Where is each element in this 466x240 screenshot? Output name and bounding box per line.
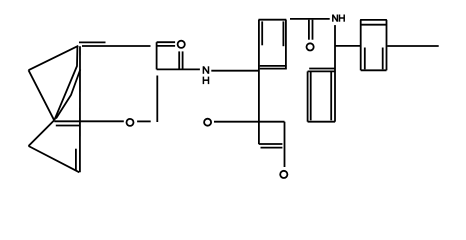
ring1 bottom double upper	[260, 65, 287, 67]
ring2 bottom edge	[361, 69, 387, 71]
wire vertical below carbonyl	[156, 76, 158, 123]
node N2 amide NH label	[333, 15, 344, 22]
node O carbonyl 2	[307, 43, 314, 50]
wire bond ring1 to NH2	[290, 18, 330, 20]
ring3 inner right vertical	[330, 71, 332, 120]
ring1 left vertical long	[258, 20, 260, 145]
wire double bond C2 lower	[157, 45, 176, 47]
node O4 oxygen	[280, 171, 287, 178]
ring2 top double lower	[361, 24, 387, 26]
wire bond O1 right	[137, 120, 151, 122]
wire bond carbonyl to N1	[157, 68, 200, 70]
wire bond A-E vertical	[79, 46, 81, 172]
ring2 top double upper	[360, 19, 387, 21]
wire double bond inner vertical E	[75, 149, 77, 171]
wire vertical C2	[156, 42, 158, 69]
ring4 bottom outer	[259, 143, 283, 145]
wire bond A-B	[29, 46, 79, 70]
ring1 bottom double lower	[260, 68, 287, 70]
ring1 right inner vertical	[282, 21, 284, 46]
wire C=O double vertical right	[182, 51, 184, 69]
wire bond NH2 down through ring3 right edge	[334, 25, 336, 122]
ring1 top edge	[259, 19, 287, 21]
wire bond N1 right	[211, 70, 259, 72]
wire bond B-C	[29, 70, 55, 120]
wire C=O double vertical left	[178, 51, 180, 69]
node O1 ether oxygen	[127, 119, 134, 126]
ring3 top lower edge	[308, 70, 336, 72]
node N1 hydrogen label	[203, 77, 208, 85]
wire bond C to O1	[54, 120, 124, 122]
ring3 bottom edge	[308, 121, 336, 123]
ring2 left vertical	[360, 20, 362, 70]
wire double bond A-C outer	[54, 47, 77, 121]
ring3 left vertical	[307, 71, 309, 121]
wire double bond A-C inner	[56, 70, 80, 119]
wire C=O2 double left	[308, 20, 310, 40]
wire C=O2 double right	[312, 20, 314, 40]
wire double bond C2 upper	[157, 41, 176, 43]
node N1 amide nitrogen label	[203, 66, 208, 74]
wire bond A right upper	[79, 41, 106, 43]
wire bond A right lower	[82, 45, 151, 47]
ring2 inner right vertical	[382, 48, 384, 70]
wire bond CH to ring2	[335, 45, 360, 47]
node O carbonyl 1	[178, 41, 185, 48]
wire bond C-D	[29, 120, 55, 146]
ring1 left inner vertical	[261, 21, 263, 45]
ring1 right outer vertical	[285, 20, 287, 70]
wire bond D-E	[29, 146, 80, 172]
wire double bond partner C horizontal	[56, 125, 80, 127]
ring3 top upper edge	[309, 68, 335, 70]
ring2 inner left vertical	[364, 48, 366, 70]
ring4 bottom inner	[261, 147, 283, 149]
ring3 inner left vertical	[310, 71, 312, 120]
node O2 methoxy oxygen	[204, 119, 211, 126]
wire tail bond right	[387, 45, 438, 47]
ring4 right vertical down to O4	[284, 122, 286, 167]
ring2 right vertical	[386, 20, 388, 70]
wire bond O2 to ring4 top	[214, 121, 285, 123]
